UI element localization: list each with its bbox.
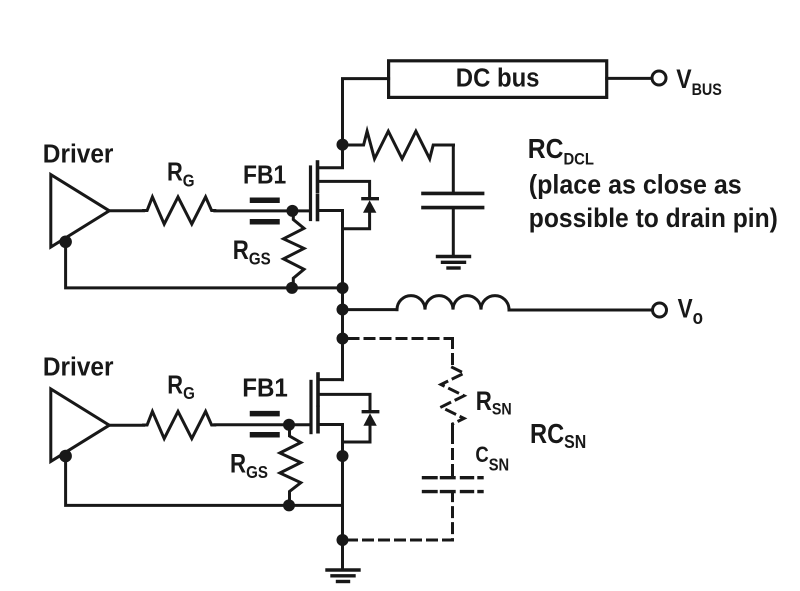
wire R_G to gate node (upper) — [215, 209, 293, 212]
wire DC bus to drain node — [343, 79, 389, 145]
svg-text:DC bus: DC bus — [456, 63, 540, 92]
svg-text:FB1: FB1 — [242, 374, 288, 403]
diode D1 (body diode) — [363, 197, 377, 200]
node R_GS bottom (upper) — [286, 282, 298, 294]
wire DC bus to VBUS terminal — [607, 77, 652, 80]
wire U2 to R_G — [109, 424, 143, 427]
node snubber top / Q2 drain — [337, 333, 349, 345]
wire C_DCL to ground — [452, 208, 455, 256]
wire R_DCL to capacitor C_DCL — [452, 145, 455, 193]
node drain Q1 — [337, 139, 349, 151]
node R_GS bottom (lower) — [283, 499, 295, 511]
wire U1 to R_G — [109, 209, 143, 212]
node gate Q1 — [286, 205, 298, 217]
ferrite bead FB1 (upper) — [253, 200, 278, 221]
resistor R_GS (upper) — [284, 211, 305, 288]
resistor R_GS (lower) — [280, 425, 301, 506]
wire dashed snubber right upper — [451, 339, 454, 368]
wire Q2 body stub to diode D2 — [318, 394, 370, 411]
svg-text:Driver: Driver — [43, 140, 114, 169]
capacitor C_DCL — [423, 192, 483, 196]
node driver U1 output — [59, 236, 72, 249]
wire inductor tap to L1 — [343, 308, 398, 311]
node driver U2 output — [59, 450, 72, 463]
wire D1 anode connect — [343, 212, 370, 229]
wire L1 to Vo terminal — [509, 309, 652, 312]
wire gate node to Q2 gate — [289, 423, 311, 426]
resistor R_G (lower) — [144, 411, 215, 438]
resistor R_DCL — [343, 131, 454, 159]
DC bus box — [389, 61, 607, 98]
wire Q1 body stub to diode D1 — [318, 181, 370, 198]
transistor Q2 gate bar — [309, 381, 312, 432]
diode D2 (body diode) — [363, 410, 377, 413]
transistor Q1 gate bar — [309, 167, 312, 220]
transistor Q2 channel bar — [316, 374, 320, 405]
driver U1 (upper) — [51, 175, 110, 247]
terminal VBUS — [652, 71, 666, 85]
svg-text:possible to drain pin): possible to drain pin) — [529, 204, 778, 233]
wire R_G to gate node (lower) — [215, 423, 289, 426]
wire D2 anode connect — [343, 425, 371, 442]
transistor Q1 channel bar — [316, 162, 320, 192]
wire Q2 source stub — [318, 425, 343, 457]
terminal Vo — [653, 303, 667, 317]
capacitor C_SN (dashed) — [424, 476, 483, 479]
svg-text:(place as close as: (place as close as — [529, 171, 742, 200]
wire gate node to Q1 gate — [292, 209, 310, 212]
node bottom (ground node) — [337, 534, 349, 546]
ferrite bead FB1 (lower) — [253, 414, 278, 435]
node inductor tap — [337, 304, 349, 316]
resistor R_G (upper) — [144, 197, 215, 224]
resistor R_SN (dashed) — [441, 368, 464, 434]
node gate Q2 — [283, 419, 295, 431]
wire Q2 drain stub — [318, 339, 343, 380]
node source Q2 — [337, 450, 349, 462]
wire Q1 source stub — [318, 211, 343, 289]
driver U2 (lower) — [51, 389, 110, 461]
ground (bottom) — [327, 570, 359, 582]
wire dashed snubber bottom — [349, 539, 453, 542]
wire feedback (lower driver return) — [66, 456, 343, 505]
inductor L1 — [397, 296, 509, 310]
wire dashed R_SN to C_SN — [451, 434, 454, 478]
node phase (upper feedback joins) — [337, 282, 349, 294]
ground (RC_DCL) — [438, 257, 470, 269]
wire phase rail — [341, 288, 344, 380]
wire source rail to bottom node — [341, 456, 344, 540]
svg-text:Driver: Driver — [43, 353, 114, 382]
wire feedback (upper driver return) — [66, 242, 343, 288]
wire dashed C_SN to bottom — [451, 492, 454, 540]
wire bottom node to ground — [341, 540, 344, 568]
svg-text:FB1: FB1 — [243, 161, 286, 190]
wire dashed snubber top — [349, 337, 453, 340]
wire Q1 drain stub — [318, 145, 343, 168]
